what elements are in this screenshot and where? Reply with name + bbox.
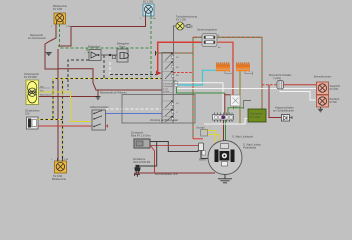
- svg-text:Masse: Masse: [199, 159, 207, 162]
- wire dark red long bottom: [135, 173, 216, 176]
- wire yellow L1 grundplatte: [205, 131, 216, 144]
- spark plug: [133, 157, 150, 177]
- handlebar switch Abblendschalter: [90, 105, 109, 130]
- wire gray regulator top: [244, 101, 252, 110]
- ignition coil 1 orange: [216, 62, 233, 75]
- svg-text:Masseband: Masseband: [40, 95, 52, 97]
- wire green dashed indicator to relay: [60, 24, 152, 53]
- wire black-yellow dashed vertical to rear indicator: [62, 79, 64, 162]
- wire yellow L2 grundplatte: [208, 135, 220, 144]
- svg-text:6V 5W: 6V 5W: [330, 101, 338, 104]
- wire red-dashed to brake switch: [262, 84, 277, 86]
- wire green-red dashed short terminal: [156, 52, 194, 54]
- svg-text:Blinkgeber: Blinkgeber: [88, 45, 100, 49]
- fuse box Sicherungsdose: [197, 28, 221, 50]
- svg-text:am Scheinwerfer: am Scheinwerfer: [28, 37, 46, 40]
- svg-text:6V 21W: 6V 21W: [330, 88, 339, 91]
- svg-text:Bremslichtkabel 1mm: Bremslichtkabel 1mm: [155, 173, 178, 176]
- wire green-red dashed fuse right down to regulator: [217, 37, 262, 109]
- wire green-red dashed fuse left down to magneto: [193, 37, 202, 139]
- svg-text:Massepunkt am Rahmen: Massepunkt am Rahmen: [100, 92, 127, 95]
- wire relay to horn: [101, 54, 117, 56]
- wire red fuse right to coils: [217, 42, 233, 95]
- svg-text:6V 10W: 6V 10W: [53, 7, 63, 11]
- wire gray brake switch to tail lamp: [280, 89, 317, 100]
- wire red ignition to handlebar switch: [38, 125, 92, 127]
- ignition coil 2 orange: [236, 62, 253, 75]
- wire dark red headlight ground: [39, 96, 98, 98]
- tail-brake lamp top: [314, 75, 340, 95]
- wire black cap to magneto: [201, 151, 209, 159]
- brake light switch: [269, 73, 292, 89]
- red arrow connector into column: [156, 71, 162, 76]
- lamp L2 tail lamp cyan: [140, 0, 156, 20]
- wire red coil down to brake wire: [151, 146, 155, 173]
- wire red handlebar stub: [106, 125, 108, 128]
- wire dark-red from tail lamp to loop: [58, 16, 146, 46]
- horn Hupe: [113, 42, 130, 63]
- svg-text:am Schalldämpfer: am Schalldämpfer: [273, 109, 294, 113]
- svg-text:Abblendschalter: Abblendschalter: [90, 105, 109, 109]
- connector strip: [213, 113, 234, 123]
- wire tacho lamp right stub: [184, 25, 187, 27]
- svg-text:15V: 15V: [25, 112, 30, 116]
- wire red HT coil to cap: [150, 145, 201, 147]
- wire yellow headlight to handlebar switch: [39, 92, 92, 122]
- wire brown condenser leg: [233, 106, 235, 109]
- wire cyan column to left coil: [176, 70, 216, 85]
- wire white dashed handlebar to column: [106, 108, 163, 110]
- svg-text:Bola 6V 1,8 Ohm: Bola 6V 1,8 Ohm: [131, 134, 151, 138]
- ground symbol mid: [96, 97, 101, 100]
- wire black dashed relay lower terminal: [68, 60, 89, 90]
- pin boxes column right: [175, 81, 178, 83]
- wire black dashed to red arrow: [110, 74, 156, 76]
- wire yellow-black dashed main horizontal: [53, 78, 162, 80]
- lamp L4 rear turn indicator: [51, 158, 69, 181]
- svg-text:6V 1.2W: 6V 1.2W: [176, 18, 186, 22]
- svg-text:6V 1 Ohm: 6V 1 Ohm: [250, 116, 261, 119]
- pin squares on column: [172, 56, 174, 120]
- wire red brake switch to stop lamp: [284, 84, 317, 86]
- wire black plug up to coil wire: [139, 142, 157, 167]
- svg-text:6V 1.2W: 6V 1.2W: [143, 0, 153, 4]
- wire red thick fuse to column connector: [158, 42, 202, 71]
- svg-text:Hupe: Hupe: [119, 45, 126, 49]
- wire black dashed drop from horn wire: [103, 55, 105, 79]
- svg-text:Polantladra: Polantladra: [243, 146, 257, 150]
- svg-text:Sicherungsdose: Sicherungsdose: [197, 28, 218, 32]
- wire green solid tail lamp down: [150, 16, 152, 78]
- headlight Scheinwerfer: [24, 72, 52, 105]
- wire green condenser net: [177, 81, 244, 141]
- wire red vertical between coils down to condenser net: [224, 93, 231, 141]
- wire dark-red loop to ground at headlamp: [45, 24, 58, 161]
- wire dark red down to muffler switch: [269, 85, 282, 118]
- big box assembly: [122, 95, 195, 124]
- wire blue handlebar to column: [106, 113, 163, 115]
- svg-text:Blinkleuchte: Blinkleuchte: [52, 177, 67, 181]
- switch column Zuend-Licht-Schalter: [162, 53, 179, 124]
- tail-brake lamp bottom: [317, 95, 340, 112]
- wire gray from tacho lamp down to column: [174, 26, 177, 53]
- ground symbol in loop: [46, 53, 52, 56]
- svg-text:ISOLATOR ZM: ISOLATOR ZM: [133, 160, 150, 164]
- grundplatte terminal box: [196, 127, 208, 137]
- spark plug cap: [199, 143, 204, 151]
- junction dot: [109, 54, 111, 56]
- wire olive right coil to condenser: [239, 71, 241, 124]
- external ignition coil box: [131, 131, 151, 149]
- wire dark red loop to column: [58, 69, 162, 97]
- flasher relay Blinkgeber: [84, 45, 101, 61]
- wire white dashed horn down: [109, 62, 111, 75]
- svg-text:7-polig: 7-polig: [273, 76, 281, 80]
- wire black ext coil to cable: [150, 142, 198, 152]
- svg-text:Zündung auf Baumuster: Zündung auf Baumuster: [150, 118, 178, 122]
- wire yellow-black dashed from ignition switch: [38, 119, 63, 121]
- ignition switch Zuendschloss: [25, 109, 40, 130]
- muffler flap switch diode box: [273, 106, 294, 122]
- svg-text:6V 15/15W: 6V 15/15W: [24, 75, 37, 79]
- wire gray headlight top stub: [39, 87, 50, 89]
- regulator green box: [248, 109, 266, 122]
- wire red-green dashed column to drop wire: [173, 72, 193, 74]
- wire white column jog: [176, 83, 223, 115]
- svg-text:G. Watt Lichtspule: G. Watt Lichtspule: [232, 135, 254, 139]
- lamp L1 front turn indicator: [51, 4, 71, 28]
- svg-text:4 Licht: 4 Licht: [163, 90, 170, 93]
- lamp L3 speedometer light: [176, 15, 198, 31]
- svg-text:Grundpl.: Grundpl.: [196, 127, 206, 130]
- magneto flywheel: [199, 135, 262, 183]
- svg-text:Bremsleuchten: Bremsleuchten: [314, 75, 332, 79]
- magneto left terminal: [202, 151, 206, 156]
- condenser white box: [231, 95, 241, 106]
- wire white long to rear lamp: [176, 88, 317, 90]
- wire yellow-black dashed vertical left: [52, 79, 54, 120]
